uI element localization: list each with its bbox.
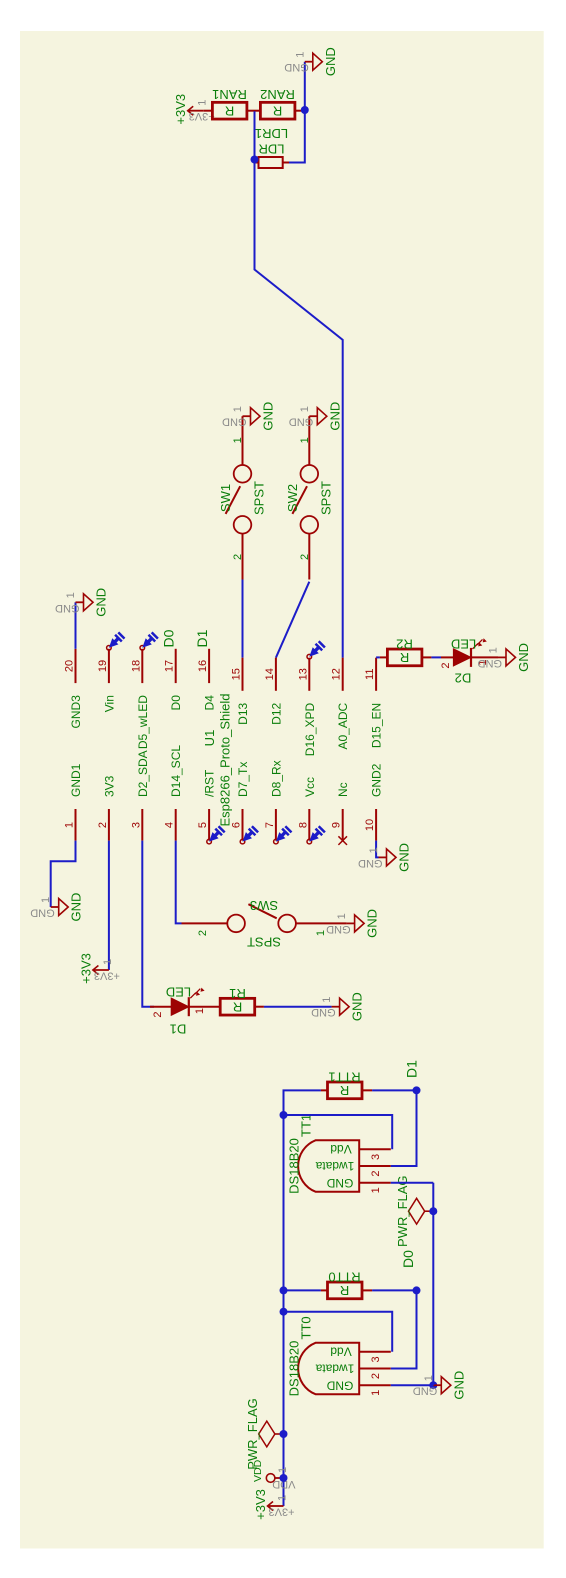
svg-text:1: 1	[299, 437, 311, 443]
svg-text:17: 17	[164, 660, 176, 672]
svg-text:3V3: 3V3	[102, 775, 116, 797]
wire 3V3 bus	[284, 1090, 321, 1506]
svg-text:1: 1	[64, 822, 76, 828]
svg-text:+3V3: +3V3	[173, 94, 188, 125]
power +3V3 (bottom left)	[268, 1505, 284, 1507]
svg-text:Nc: Nc	[336, 782, 350, 797]
svg-text:D2: D2	[455, 671, 472, 686]
svg-text:1: 1	[336, 913, 348, 919]
svg-text:1: 1	[102, 959, 114, 965]
svg-text:D8_Rx: D8_Rx	[269, 760, 283, 797]
svg-text:2: 2	[370, 1171, 382, 1177]
resistor RTT0	[284, 1289, 321, 1291]
U1 pin 8 Vcc	[308, 809, 310, 841]
U1 pin 4 D14_SCL	[175, 809, 177, 841]
svg-text:2: 2	[97, 822, 109, 828]
svg-text:D0: D0	[161, 629, 177, 647]
sensor TT1 DS18B20	[298, 1140, 359, 1191]
svg-text:D1: D1	[404, 1060, 420, 1078]
wire RTT1 to node D1	[372, 1089, 416, 1091]
svg-text:R: R	[225, 104, 234, 119]
svg-text:TT1: TT1	[299, 1114, 314, 1137]
power GND at SW3	[347, 922, 355, 924]
U1 pin 6 D7_Tx	[242, 809, 244, 841]
svg-text:11: 11	[364, 669, 376, 680]
power flag PWR_FLAG (left)	[275, 1433, 284, 1435]
U1 pin 2 3V3	[108, 809, 110, 841]
svg-text:1: 1	[321, 997, 333, 1003]
switch SW2 SPST	[301, 465, 319, 483]
svg-text:Esp8266_Proto_Shield: Esp8266_Proto_Shield	[218, 694, 233, 827]
power GND below R1	[332, 1006, 340, 1008]
svg-text:R: R	[273, 104, 282, 119]
svg-text:A0_ADC: A0_ADC	[336, 702, 350, 749]
svg-text:GND: GND	[451, 1371, 466, 1400]
svg-text:1wdata: 1wdata	[315, 1362, 354, 1376]
wire LDR bottom to GND rail	[289, 62, 305, 163]
svg-text:2: 2	[370, 1373, 382, 1379]
LED D1	[150, 1006, 171, 1008]
resistor RAN1	[212, 102, 247, 119]
svg-text:GND: GND	[323, 47, 338, 76]
wire pin2 to +3V3	[108, 841, 110, 970]
svg-text:R: R	[340, 1083, 349, 1098]
svg-text:D1: D1	[170, 1022, 187, 1037]
wire LED D2 to GND	[471, 656, 498, 658]
svg-text:16: 16	[197, 660, 209, 672]
svg-text:18: 18	[130, 660, 142, 672]
svg-text:SPST: SPST	[252, 481, 267, 515]
svg-text:GND: GND	[413, 1385, 438, 1397]
wire pin10 to GND	[376, 841, 378, 858]
U1 pin 11 D15_EN	[375, 658, 377, 691]
U1 pin 7 D8_Rx	[275, 809, 277, 841]
wire pin4 to SW3	[176, 841, 182, 924]
wire pin3 to LED D1	[142, 841, 154, 1007]
svg-text:10: 10	[364, 819, 376, 831]
svg-text:+3V3: +3V3	[189, 110, 215, 122]
power +3V3 (top right)	[188, 110, 204, 112]
svg-text:1wdata: 1wdata	[315, 1159, 354, 1173]
svg-text:GND: GND	[397, 843, 412, 872]
svg-text:+3V3: +3V3	[94, 970, 120, 982]
svg-text:PWR_FLAG: PWR_FLAG	[245, 1398, 260, 1470]
resistor R1	[188, 1006, 220, 1008]
svg-text:RAN2: RAN2	[260, 87, 295, 102]
svg-text:Vin: Vin	[102, 695, 116, 712]
wire R2 to LED D2	[431, 656, 441, 658]
wire TT1 Vdd to bus	[284, 1115, 393, 1149]
svg-text:GND: GND	[261, 402, 276, 431]
svg-text:D5_wLED: D5_wLED	[136, 695, 150, 749]
svg-text:GND1: GND1	[69, 763, 83, 797]
sensor TT0 DS18B20	[298, 1343, 359, 1394]
svg-text:R: R	[400, 650, 409, 665]
svg-text:RAN1: RAN1	[212, 87, 247, 102]
svg-text:GND: GND	[284, 61, 309, 73]
U1 pin 5 /RST	[208, 809, 210, 841]
svg-text:RTT0: RTT0	[328, 1270, 360, 1285]
unconnected pin markers and arrows	[107, 646, 112, 651]
svg-text:PWR_FLAG: PWR_FLAG	[395, 1175, 410, 1247]
svg-text:D0: D0	[169, 695, 183, 711]
svg-text:6: 6	[231, 822, 243, 828]
U1 pin 13 D16_XPD	[308, 658, 310, 691]
svg-text:2: 2	[152, 1012, 164, 1018]
power GND (GND1)	[51, 906, 59, 908]
svg-text:SPST: SPST	[247, 935, 281, 950]
svg-text:20: 20	[64, 660, 76, 672]
U1 pin 16 D4	[208, 649, 210, 683]
U1 pin 14 D12	[275, 658, 277, 691]
U1 pin 15 D13	[242, 658, 244, 691]
power VDD	[275, 1477, 284, 1479]
svg-text:+3V3: +3V3	[269, 1506, 295, 1518]
resistor LDR1 (photoresistor)	[259, 157, 283, 168]
U1 pin 12 A0_ADC	[342, 658, 344, 691]
svg-text:R1: R1	[229, 986, 246, 1001]
svg-text:D12: D12	[269, 702, 283, 724]
svg-text:1: 1	[40, 897, 52, 903]
svg-text:3: 3	[130, 822, 142, 828]
svg-text:1: 1	[65, 592, 77, 598]
svg-text:2: 2	[232, 554, 244, 560]
U1 pin 3 D2_SDA	[141, 809, 143, 841]
wire pin11 to R2	[376, 656, 380, 658]
svg-text:GND: GND	[55, 602, 80, 614]
svg-text:R2: R2	[396, 637, 413, 652]
svg-text:1: 1	[232, 406, 244, 412]
svg-text:14: 14	[264, 668, 276, 680]
svg-text:D0: D0	[400, 1250, 416, 1268]
svg-text:GND: GND	[289, 416, 314, 428]
svg-text:GND: GND	[326, 1379, 353, 1393]
svg-text:1: 1	[488, 647, 500, 653]
svg-text:1: 1	[197, 100, 209, 106]
svg-text:GND3: GND3	[69, 695, 83, 729]
svg-text:GND2: GND2	[370, 763, 384, 797]
svg-text:9: 9	[331, 822, 343, 828]
svg-text:15: 15	[231, 668, 243, 680]
svg-text:2: 2	[440, 663, 452, 669]
svg-text:4: 4	[164, 822, 176, 828]
svg-text:Vdd: Vdd	[330, 1142, 351, 1156]
svg-text:13: 13	[297, 668, 309, 680]
U1 pin 9 Nc	[342, 809, 344, 841]
svg-text:SPST: SPST	[318, 481, 333, 515]
switch SW1 SPST	[234, 465, 252, 483]
svg-text:GND: GND	[478, 657, 503, 669]
svg-text:1: 1	[299, 406, 311, 412]
wire SW2 to D12 (diagonal)	[276, 582, 309, 658]
svg-text:SW3: SW3	[250, 898, 278, 913]
svg-text:/RST: /RST	[203, 769, 217, 797]
power GND (GND3)	[76, 601, 84, 603]
svg-text:RTT1: RTT1	[328, 1070, 360, 1085]
wire TT0 data	[391, 1290, 417, 1368]
U1 pin 10 GND2	[375, 809, 377, 841]
wire pin20 to GND	[75, 602, 77, 649]
svg-text:GND: GND	[30, 907, 55, 919]
svg-text:1: 1	[294, 52, 306, 58]
wire TT1 data	[391, 1090, 417, 1166]
svg-text:3: 3	[370, 1154, 382, 1160]
wire SW1 to D13	[242, 580, 244, 658]
svg-text:DS18B20: DS18B20	[287, 1341, 302, 1397]
svg-text:1: 1	[370, 1390, 382, 1396]
svg-text:GND: GND	[516, 643, 531, 672]
svg-text:3: 3	[370, 1356, 382, 1362]
wire TT0 Vdd to bus	[284, 1312, 393, 1352]
svg-text:19: 19	[97, 660, 109, 672]
power GND below D2	[498, 656, 506, 658]
power flag PWR_FLAG (right)	[425, 1210, 434, 1212]
wire pin1 GND1	[51, 841, 76, 907]
svg-text:D13: D13	[236, 702, 250, 724]
svg-text:1: 1	[370, 1187, 382, 1193]
svg-text:D16_XPD: D16_XPD	[303, 702, 317, 756]
power GND (GND2)	[379, 856, 387, 858]
svg-text:GND: GND	[94, 588, 109, 617]
svg-text:12: 12	[331, 668, 343, 680]
svg-text:D7_Tx: D7_Tx	[236, 762, 250, 797]
wire RTT0 to node D0	[372, 1289, 416, 1291]
power +3V3 (at pin2)	[93, 969, 109, 971]
svg-text:LDR1: LDR1	[255, 126, 288, 141]
svg-text:1: 1	[277, 1495, 289, 1501]
svg-text:Vcc: Vcc	[303, 777, 317, 797]
wire TT0 GND	[391, 1384, 434, 1386]
svg-text:GND: GND	[326, 923, 351, 935]
wire R1 to GND	[264, 1006, 332, 1008]
svg-text:TT0: TT0	[299, 1316, 314, 1339]
power GND (top right)	[305, 61, 313, 63]
svg-text:+3V3: +3V3	[78, 953, 93, 984]
wire TT1 GND	[391, 1182, 434, 1184]
U1 pin 20 GND3	[75, 649, 77, 683]
svg-text:1: 1	[194, 1008, 206, 1014]
resistor R2	[380, 656, 388, 658]
svg-text:8: 8	[297, 822, 309, 828]
svg-text:GND: GND	[326, 1176, 353, 1190]
svg-text:LED: LED	[451, 637, 476, 652]
svg-text:SW1: SW1	[218, 484, 233, 512]
svg-text:R: R	[340, 1283, 349, 1298]
resistor RTT1	[321, 1089, 328, 1091]
svg-text:D4: D4	[203, 695, 217, 711]
svg-text:R: R	[233, 1000, 242, 1015]
junction RAN2 bottom	[301, 106, 309, 114]
svg-text:1: 1	[232, 437, 244, 443]
svg-text:D1: D1	[194, 629, 210, 647]
resistor RAN2	[260, 102, 295, 119]
svg-text:1: 1	[368, 847, 380, 853]
svg-text:U1: U1	[202, 730, 217, 747]
svg-text:GND: GND	[69, 893, 84, 922]
svg-text:LDR: LDR	[258, 142, 284, 157]
svg-text:SW2: SW2	[285, 484, 300, 512]
GND rail	[432, 1183, 434, 1386]
svg-text:5: 5	[197, 822, 209, 828]
svg-text:D14_SCL: D14_SCL	[169, 745, 183, 797]
svg-text:1: 1	[277, 1467, 289, 1473]
svg-text:LED: LED	[166, 985, 191, 1000]
svg-text:Vdd: Vdd	[330, 1345, 351, 1359]
svg-text:1: 1	[315, 930, 327, 936]
no-connect X at pin 9	[338, 836, 347, 845]
power GND below TT0	[429, 1381, 437, 1389]
U1 pin 18 D5_wLED	[141, 649, 143, 683]
svg-text:GND: GND	[222, 416, 247, 428]
svg-text:DS18B20: DS18B20	[287, 1138, 302, 1194]
switch SW3 SPST (vertical)	[227, 915, 245, 933]
svg-text:GND: GND	[350, 992, 365, 1021]
svg-text:GND: GND	[365, 909, 380, 938]
junction LDR top	[251, 156, 259, 164]
U1 pin 19 Vin	[108, 649, 110, 683]
svg-text:D15_EN: D15_EN	[370, 703, 384, 748]
svg-text:GND: GND	[358, 857, 383, 869]
svg-text:7: 7	[264, 822, 276, 828]
svg-text:2: 2	[299, 554, 311, 560]
svg-text:2: 2	[197, 930, 209, 936]
LED D2	[441, 656, 453, 658]
power GND at SW2	[309, 415, 317, 417]
power GND at SW1	[243, 415, 251, 417]
svg-text:GND: GND	[327, 402, 342, 431]
svg-text:D2_SDA: D2_SDA	[136, 750, 150, 797]
wire sense node	[255, 111, 343, 658]
U1 pin 17 D0	[175, 649, 177, 683]
svg-text:GND: GND	[311, 1006, 336, 1018]
U1 pin 1 GND1	[75, 809, 77, 841]
svg-text:+3V3: +3V3	[253, 1489, 268, 1520]
